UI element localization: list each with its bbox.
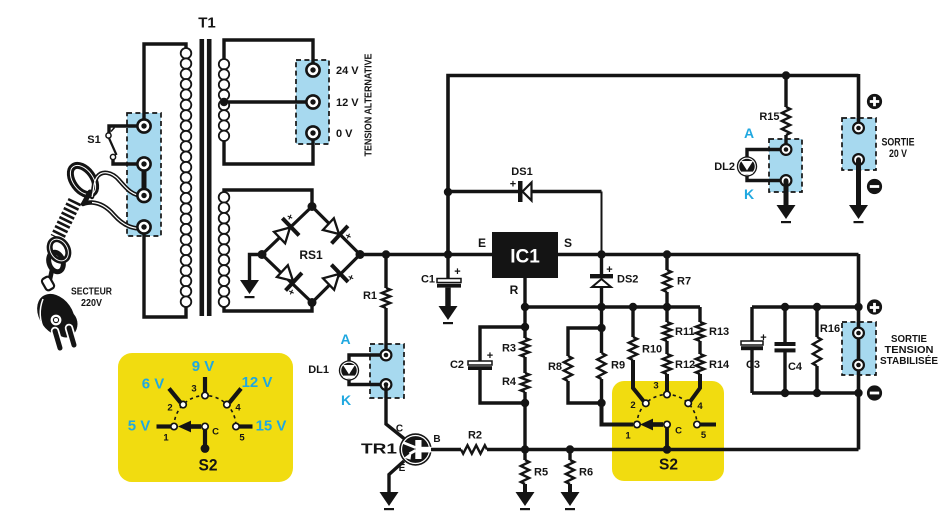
terminal 20V-2 [853,154,864,165]
wire R6 gnd [568,484,572,493]
legend contact C [202,423,208,429]
svg-text:R3: R3 [502,342,516,354]
svg-text:R8: R8 [548,361,562,373]
legend contact 4 [224,401,230,407]
node R8 bracket top [597,324,605,332]
resistor R12 [663,354,671,374]
terminal block DL2 [769,139,802,192]
terminal DL2-2 [781,175,792,186]
wire bottom rail [487,448,859,451]
svg-text:R14: R14 [709,359,730,371]
wire mains cable from terminal3 [92,173,144,197]
svg-text:1: 1 [625,430,631,441]
wire R3-R4 [523,357,526,373]
svg-text:RS1: RS1 [299,248,323,262]
terminal DL1-2 [381,379,392,390]
svg-text:R15: R15 [759,111,779,123]
wire mains cable from terminal4 [83,202,144,228]
wire DL1 to TR1 collector [386,385,404,439]
resistor R16 [815,307,818,337]
wire DS1 left [448,190,518,193]
legend stub 4 [230,389,242,403]
wire R5 gnd [523,484,527,493]
node spine top [854,303,862,311]
wire C4 bottom [783,352,786,393]
wire C group bottom rail [752,391,859,394]
svg-text:R10: R10 [642,343,662,355]
node C1 top [444,250,452,258]
legend contact 2 [180,401,186,407]
wire R1 to DL1 [384,308,387,355]
svg-text:TR1: TR1 [361,440,397,457]
wire rail E [360,253,492,256]
node R6 rail [566,445,574,453]
terminal block SORTIE 20V [842,118,876,170]
terminal block SECTEUR [127,113,161,236]
svg-text:R7: R7 [677,275,691,287]
wire R15 to DL2 [784,135,787,150]
wire R16 bottom [815,366,818,393]
svg-text:R5: R5 [534,466,548,478]
capacitor C3 [741,341,763,345]
wire C3 bottom [750,350,753,393]
wire to S2 contact 1 [602,403,634,425]
wire DS2 bottom [600,287,603,307]
symbol minus 20V [867,179,882,194]
svg-text:20 V: 20 V [889,148,908,160]
regulator IC1 [492,232,558,278]
legend wiper arrow [190,424,201,429]
ground C1 [439,306,458,320]
node R9 bottom [597,399,605,407]
svg-text:SECTEUR: SECTEUR [71,286,112,298]
terminal 0V [306,126,319,139]
transformer T1 core [200,39,205,316]
wire R9 bottom [600,379,603,403]
wire R4 bottom [523,392,526,450]
svg-text:DS2: DS2 [617,273,638,285]
svg-text:R4: R4 [502,376,517,388]
svg-text:5: 5 [239,432,245,443]
wire R8 bottom bracket [568,381,602,403]
resistor R13 [698,307,701,322]
ground bridge [240,280,259,294]
svg-text:SORTIE: SORTIE [882,136,915,148]
switch S2 contact 1 [634,421,640,427]
wire C2 bottom bracket [480,370,525,403]
svg-text:S1: S1 [87,134,100,146]
svg-text:IC1: IC1 [510,247,540,268]
wire TR1 base to R2 [431,448,461,451]
node 12V tap [220,98,228,106]
wire secondary2 top [224,190,312,207]
terminal stab-1 [853,328,864,339]
terminal 20V-1 [853,123,864,134]
svg-text:R13: R13 [709,326,729,338]
ground DL2 [777,205,796,219]
terminal 12V [306,95,319,108]
resistor R6 [568,450,571,461]
resistor R4 [521,373,529,392]
wire DL2 ground [784,181,789,206]
mains plug neck [41,276,55,292]
svg-text:5: 5 [701,430,707,441]
svg-text:R2: R2 [468,429,482,441]
terminal block DL1 [370,344,404,398]
resistor R11 [665,307,668,322]
node S [597,250,605,258]
node bridge bottom [308,298,317,307]
svg-text:T1: T1 [198,14,216,31]
symbol minus stab [867,385,882,400]
legend stub 2 [169,389,181,403]
svg-text:S2: S2 [199,455,218,474]
diode DS1 [518,181,523,202]
svg-text:C3: C3 [746,359,760,371]
svg-text:12 V: 12 V [242,374,273,391]
svg-text:E: E [478,236,486,250]
node R3 top [521,303,529,311]
wire R9 top [600,307,603,353]
switch S1 lever [109,137,117,155]
svg-text:S: S [564,236,572,250]
node DS1 branch [444,188,452,196]
switch S2 arc [637,395,697,425]
svg-text:3: 3 [191,383,196,394]
svg-text:R12: R12 [675,359,695,371]
terminal S-3 [137,189,150,202]
wire mains cable highlights [92,173,144,197]
wire DS2 top [600,255,603,276]
svg-text:C2: C2 [450,359,464,371]
jumper terminal2-terminal3 [142,167,147,192]
wire C4 top [783,307,786,343]
symbol plus 20V [867,94,882,109]
svg-text:R9: R9 [611,359,625,371]
mains plug body [29,287,82,344]
svg-text:0 V: 0 V [336,128,353,140]
legend stub 3 [203,377,207,392]
legend stub 1 [157,424,172,428]
transformer T1 secondary winding 2 [219,192,230,203]
svg-text:DL1: DL1 [308,364,329,376]
wire bridge arms [262,207,360,303]
svg-text:5 V: 5 V [128,417,151,434]
svg-text:E: E [399,463,406,474]
resistor R10 [631,307,634,337]
switch S2 contact 2 [643,400,649,406]
node DS2 bottom [597,303,605,311]
diode RS1-d [320,263,349,292]
wire R pin [523,278,526,307]
legend stub 5 [239,424,253,428]
svg-text:R1: R1 [363,290,377,302]
svg-text:C4: C4 [788,361,803,373]
wire C1 bottom [445,288,451,307]
node R10 top [629,303,637,311]
svg-text:220V: 220V [81,297,102,309]
ground R5 [516,492,535,506]
capacitor C2 [468,361,492,365]
mains plug prongs [55,331,60,348]
wire primary bottom [144,227,186,317]
legend C lead [203,430,207,447]
rotary switch S2 box [612,381,724,481]
wire secondary 0V [224,133,313,164]
svg-text:6 V: 6 V [142,375,165,392]
resistor R14 [696,354,704,374]
wire R chain [523,307,526,338]
svg-text:+: + [510,178,516,190]
wire DL2 anode [747,150,786,158]
terminal block SORTIE STABILISEE [842,322,876,375]
capacitor C4 [775,342,796,346]
wire S1 to terminal2 [113,159,144,164]
svg-text:B: B [433,434,440,445]
wire R1 top [384,255,387,289]
wire DL1 anode [349,355,386,361]
node R16 top [813,303,821,311]
svg-text:+: + [760,332,766,344]
symbol plus stab [867,299,882,314]
wire rail R [525,305,700,308]
svg-text:TENSION ALTERNATIVE: TENSION ALTERNATIVE [363,54,375,157]
switch S2 contact 3 [664,391,670,397]
svg-text:+: + [487,350,493,362]
wire C3 top [750,307,753,342]
node bridge right [356,250,365,259]
terminal S-2 [137,157,150,170]
wire R12 to contact3 [665,374,669,391]
svg-text:1: 1 [163,432,169,443]
switch S2 contact5 stub [700,423,716,427]
svg-text:S2: S2 [659,457,678,474]
terminal DL2-1 [781,144,792,155]
node R15 top [782,71,790,79]
legend S2 arc [174,396,236,427]
svg-text:+: + [454,266,460,278]
legend contact 1 [171,423,177,429]
svg-text:4: 4 [235,402,241,413]
node S2C rail [663,445,672,454]
legend contact 5 [233,423,239,429]
resistor R7 [665,255,668,271]
switch S2 contact 5 [694,421,700,427]
diode DS2 [590,274,613,278]
wire TR1 emitter [389,461,404,493]
wire DL1 cathode [349,380,386,385]
svg-text:2: 2 [630,400,635,411]
svg-text:R6: R6 [579,466,593,478]
svg-text:C: C [212,426,219,437]
wire DS1 right [532,190,602,193]
wire DL2 cathode [747,176,786,181]
wire rail S [558,253,859,256]
resistor R1 [382,288,390,308]
node spine bottom [854,389,862,397]
svg-text:K: K [341,392,351,408]
wire bridge to ground [250,255,263,282]
terminal S-4 [137,220,150,233]
svg-text:24 V: 24 V [336,65,359,77]
ground R6 [561,492,580,506]
node R11 top [663,303,671,311]
node C2 top branch [521,323,529,331]
node R5 rail [521,445,529,453]
wire 20V ground [856,160,861,206]
node bridge left [258,250,267,259]
node R7 top [663,250,671,258]
node R1 top [382,250,390,258]
svg-text:DL2: DL2 [714,161,735,173]
svg-text:A: A [340,331,350,347]
svg-text:+: + [606,264,612,276]
node C2 bottom [521,399,529,407]
wire S2 C down [665,427,669,450]
wire terminal1 to S1 [109,126,144,133]
svg-text:C1: C1 [421,273,435,285]
diode RS1-c [274,262,303,291]
ground TR1 [380,492,399,506]
terminal S-1 [137,119,150,132]
transformer T1 secondary winding 1 [219,59,229,69]
diode RS1-b [320,215,349,244]
node C4 bottom [781,389,789,397]
switch S2 wiper arrow [652,422,663,427]
node bridge top [308,202,317,211]
transformer T1 primary winding [181,48,192,59]
wire primary top [144,44,186,128]
terminal DL1-1 [381,350,392,361]
terminal 24V [306,63,319,76]
diode RS1-a [271,217,300,246]
terminal stab-2 [853,360,864,371]
svg-text:R: R [510,283,519,297]
wire sortie20 down [857,74,861,129]
terminal block TENSION ALTERNATIVE [296,60,329,144]
ground 20V [849,205,868,219]
node C4 top [781,303,789,311]
wire R8 top bracket [568,328,602,356]
svg-text:K: K [744,186,754,202]
legend contact 3 [202,392,208,398]
resistor R9 [597,353,605,379]
switch S2 contact 4 [685,400,691,406]
svg-text:4: 4 [697,401,703,412]
resistor R2 [461,445,487,453]
wire C group top rail [752,305,859,308]
svg-text:R11: R11 [675,326,695,338]
svg-text:STABILISÉE: STABILISÉE [880,354,938,367]
svg-text:2: 2 [167,402,172,413]
wire R13-R14 [698,341,701,354]
svg-text:9 V: 9 V [192,358,215,375]
wire secondary 24V [224,40,313,70]
wire R10 to contact2 [633,360,644,401]
wire vertical feed [448,76,859,255]
wire secondary2 bottom [224,303,312,312]
led DL1 [339,360,359,380]
wire R14 to contact4 [691,374,701,401]
wire secondary 12V tap [224,100,313,103]
svg-text:C: C [396,424,403,435]
svg-text:C: C [675,425,682,436]
wire R11-R12 [665,341,668,354]
svg-text:A: A [744,125,754,141]
wire right spine [857,254,861,450]
led DL2 [737,156,757,176]
svg-text:R16: R16 [820,323,840,335]
resistor R8 [564,356,572,381]
svg-text:3: 3 [653,380,658,391]
resistor R3 [521,338,529,357]
wire C2 top bracket [480,327,525,362]
rotary switch S2 voltage legend box [118,353,293,482]
transistor TR1 [399,433,431,465]
svg-text:12 V: 12 V [336,97,359,109]
wire mains cable lower loops [46,236,72,264]
svg-text:15 V: 15 V [256,417,287,434]
wire mains cable hairpin loop [65,161,101,199]
wire mains cable coil [57,201,75,238]
switch S2 contact C [664,421,670,427]
resistor R15 [784,76,787,108]
capacitor C1 [437,279,461,283]
resistor R5 [523,450,526,461]
svg-text:DS1: DS1 [511,166,532,178]
wire C1 top [446,255,449,280]
node R16 bottom [813,389,821,397]
